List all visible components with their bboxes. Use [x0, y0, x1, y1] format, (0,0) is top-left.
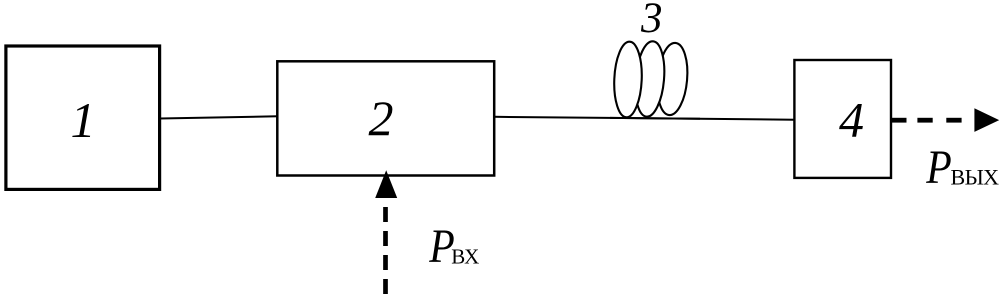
svg-text:2: 2	[369, 90, 394, 146]
svg-text:4: 4	[839, 92, 864, 148]
svg-text:ВЫХ: ВЫХ	[951, 165, 1000, 190]
svg-text:ВХ: ВХ	[451, 245, 479, 269]
svg-text:3: 3	[640, 0, 663, 42]
svg-text:P: P	[925, 140, 951, 193]
svg-text:1: 1	[71, 92, 96, 148]
